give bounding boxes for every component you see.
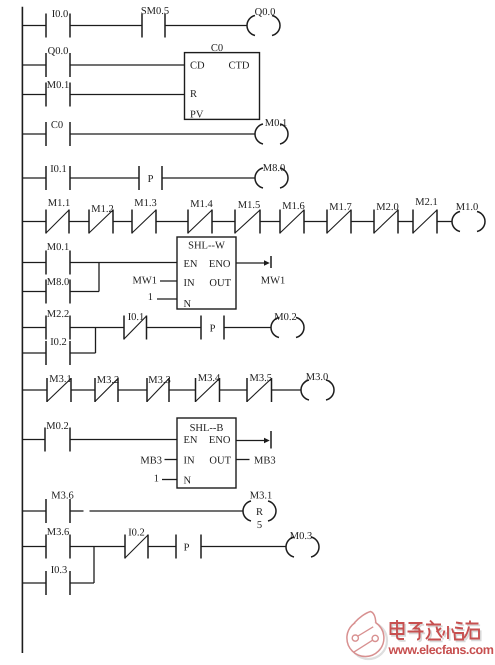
svg-text:M1.5: M1.5 [238,200,260,211]
wire M3.2 to M3.3 [118,389,147,391]
wire M1.1 to M1.2 [69,221,89,223]
contact M1.7 (NC) [327,202,352,234]
wire M1.7 to M2.0 [351,221,374,223]
svg-text:MW1: MW1 [133,276,158,287]
wire rung10 rail to M3.6 [22,510,46,512]
wire M0.2 to EN input [70,439,177,441]
coil M3.0 [301,372,334,400]
wire M0.1 to EN input [70,262,177,264]
contact M3.6 [46,527,70,559]
wire M8.0 branch vertical junction [98,263,100,292]
wire rung8 rail to M3.1 [22,389,47,391]
wire rung6 rail to M8.0 [22,291,46,293]
operand 1 at N [148,292,177,303]
svg-text:M1.6: M1.6 [282,201,304,212]
contact M1.5 (NC) [235,200,260,234]
wire I0.2 to P [148,546,176,548]
wire M3.6 output stub [70,510,84,512]
left power rail [21,7,23,653]
wire M2.0 to M2.1 [398,221,413,223]
wire I0.2 branch horizontal [70,352,96,354]
coil Q0.0 [247,7,280,36]
svg-text:C0: C0 [51,120,63,131]
wire M1.4 to M1.5 [212,221,235,223]
svg-text:R: R [190,89,197,100]
wire C0 contact to coil M0.1 [70,133,255,135]
svg-text:M0.1: M0.1 [265,118,287,129]
coil M8.0 [255,163,288,188]
svg-text:M3.5: M3.5 [250,373,272,384]
svg-text:M1.7: M1.7 [329,202,351,213]
contact I0.2 [46,337,70,365]
svg-text:CD: CD [190,61,205,72]
contact P (positive edge) [139,166,162,190]
svg-text:5: 5 [257,520,262,531]
svg-text:M2.0: M2.0 [376,202,398,213]
contact I0.2 (NC) [125,528,148,559]
svg-text:1: 1 [148,292,153,303]
contact M2.0 (NC) [374,202,399,234]
wire M2.2 to I0.1 [70,327,124,329]
svg-text:MB3: MB3 [254,456,276,467]
contact M3.5 (NC) [247,373,272,402]
svg-text:M1.0: M1.0 [456,202,478,213]
wire rung5 rail to M1.1 [22,221,46,223]
svg-text:M3.1: M3.1 [49,374,71,385]
contact M1.2 (NC) [89,204,114,234]
svg-text:M3.1: M3.1 [250,491,272,502]
contact M1.3 (NC) [132,198,157,234]
svg-text:M3.6: M3.6 [47,527,69,538]
contact I0.1 (NC) [124,312,147,340]
wire M3.4 to M3.5 [220,389,248,391]
svg-text:M3.2: M3.2 [97,375,119,386]
contact M1.6 (NC) [280,201,305,234]
svg-text:EN: EN [184,259,198,270]
svg-text:M1.3: M1.3 [134,198,156,209]
wire rung2 rail to Q0.0 contact [22,64,46,66]
contact Q0.0 [46,46,70,77]
wire M2.1 to coil M1.0 [437,221,452,223]
watermark text dianzifashaoyou (stroke imitation) [392,622,481,642]
wire P to coil M0.2 [224,327,271,329]
contact M3.2 (NC) [95,375,119,402]
ENO output arrow [236,431,271,449]
wire rung2 rail to M0.1 contact [22,94,46,96]
contact I0.0 [46,9,70,38]
svg-text:M0.2: M0.2 [46,421,68,432]
contact M3.4 (NC) [196,373,221,402]
svg-text:I0.2: I0.2 [50,337,67,348]
svg-text:P: P [184,543,190,554]
svg-text:M0.1: M0.1 [47,242,69,253]
contact M2.2 [46,309,70,340]
contact P (positive edge) [201,316,224,340]
contact M2.1 (NC) [413,197,438,234]
svg-text:I0.1: I0.1 [50,164,67,175]
svg-text:M0.3: M0.3 [290,531,312,542]
svg-text:N: N [184,476,192,487]
svg-text:IN: IN [184,456,195,467]
wire I0.0 to SM0.5 [70,25,142,27]
wire rung7 rail to I0.2 [22,352,46,354]
contact M0.2 [45,421,70,452]
svg-text:Q0.0: Q0.0 [48,46,69,57]
SHL--W box U1 [177,237,236,310]
wire I0.3 branch vertical junction [93,547,95,584]
svg-text:R: R [256,507,263,518]
wire rung11 rail to I0.3 [22,582,46,584]
wire M3.3 to M3.4 [169,389,196,391]
coil M3.1 (R reset, 5 points) [243,491,276,532]
operand MW1 at IN [133,276,178,287]
wire SM0.5 to coil Q0.0 [165,25,247,27]
svg-text:IN: IN [184,278,195,289]
wire I0.2 branch vertical junction [95,328,97,354]
wire rung1 rail to I0.0 [22,25,46,27]
contact I0.1 [46,164,70,190]
wire rung9 rail to M0.2 [22,439,45,441]
svg-text:I0.0: I0.0 [52,9,69,20]
contact M3.6 [46,491,74,524]
svg-text:MB3: MB3 [140,456,162,467]
wire M3.1 to M3.2 [71,389,95,391]
wire M1.5 to M1.6 [260,221,280,223]
contact M3.3 (NC) [147,375,171,402]
svg-text:I0.1: I0.1 [128,312,145,323]
wire I0.1 to P contact [70,177,139,179]
wire M3.6 to I0.2 [70,546,125,548]
svg-text:M3.6: M3.6 [51,491,73,502]
wire rung11 rail to M3.6 [22,546,46,548]
wire M8.0 branch horizontal [70,291,99,293]
wire to reset coil [90,510,244,512]
wire P to coil M0.3 [201,546,286,548]
coil M0.2 [271,312,304,338]
svg-text:M1.1: M1.1 [48,198,70,209]
coil M1.0 [452,202,485,232]
svg-text:www.elecfans.com: www.elecfans.com [388,643,494,657]
wire rung6 rail to M0.1 [22,262,46,264]
svg-text:M2.2: M2.2 [47,309,69,320]
contact I0.3 [46,565,70,595]
wire rung4 rail to I0.1 [22,177,46,179]
contact P (positive edge) [176,535,201,559]
svg-text:PV: PV [190,110,204,121]
wire Q0.0 contact to CD input [70,64,185,66]
contact M0.1 [46,242,70,275]
svg-text:OUT: OUT [209,456,231,467]
svg-text:Q0.0: Q0.0 [255,7,276,18]
contact C0 [46,120,70,146]
svg-text:SHL--W: SHL--W [188,241,225,252]
contact M1.1 (NC) [46,198,70,234]
svg-text:M0.2: M0.2 [274,312,296,323]
wire M0.1 contact to R input [70,94,185,96]
contact M8.0 [46,277,70,304]
wire OUT output stub [236,459,250,461]
svg-text:M8.0: M8.0 [263,163,285,174]
svg-text:M3.0: M3.0 [306,372,328,383]
wire I0.3 branch horizontal [70,582,94,584]
svg-text:P: P [210,324,216,335]
svg-text:SHL--B: SHL--B [190,423,224,434]
counter C0 box [185,43,260,121]
watermark logo circle [347,612,387,660]
coil M0.1 [255,118,288,144]
svg-text:M1.2: M1.2 [91,204,113,215]
svg-text:P: P [148,174,154,185]
wire M1.2 to M1.3 [113,221,132,223]
svg-text:ENO: ENO [209,435,231,446]
svg-text:M8.0: M8.0 [47,277,69,288]
contact SM0.5 [141,6,169,38]
svg-text:N: N [184,299,192,310]
svg-text:EN: EN [184,435,198,446]
svg-text:M1.4: M1.4 [190,199,213,210]
wire P contact to coil M8.0 [162,177,255,179]
svg-text:ENO: ENO [209,259,231,270]
svg-text:I0.2: I0.2 [128,528,145,539]
SHL--B box U2 [177,418,236,488]
wire rung3 rail to C0 contact [22,133,46,135]
svg-text:I0.3: I0.3 [51,565,68,576]
contact M3.1 (NC) [47,374,72,402]
svg-text:OUT: OUT [209,278,231,289]
svg-text:M0.1: M0.1 [47,80,69,91]
wire M3.5 to coil M3.0 [272,389,302,391]
ENO output arrow [236,256,271,268]
coil M0.3 [286,531,319,557]
wire I0.1 to P [147,327,202,329]
svg-text:M3.3: M3.3 [148,375,170,386]
svg-text:SM0.5: SM0.5 [141,6,169,17]
svg-text:M2.1: M2.1 [415,197,437,208]
contact M1.4 (NC) [188,199,213,234]
svg-text:1: 1 [154,474,159,485]
operand 1 at N [154,474,177,485]
wire M1.6 to M1.7 [304,221,327,223]
svg-text:MW1: MW1 [261,276,286,287]
wire M1.3 to M1.4 [156,221,188,223]
wire rung7 rail to M2.2 [22,327,46,329]
svg-text:CTD: CTD [229,61,250,72]
operand MB3 at IN [140,456,177,467]
contact M0.1 [46,80,70,107]
svg-text:C0: C0 [211,43,223,54]
svg-text:M3.4: M3.4 [198,373,221,384]
